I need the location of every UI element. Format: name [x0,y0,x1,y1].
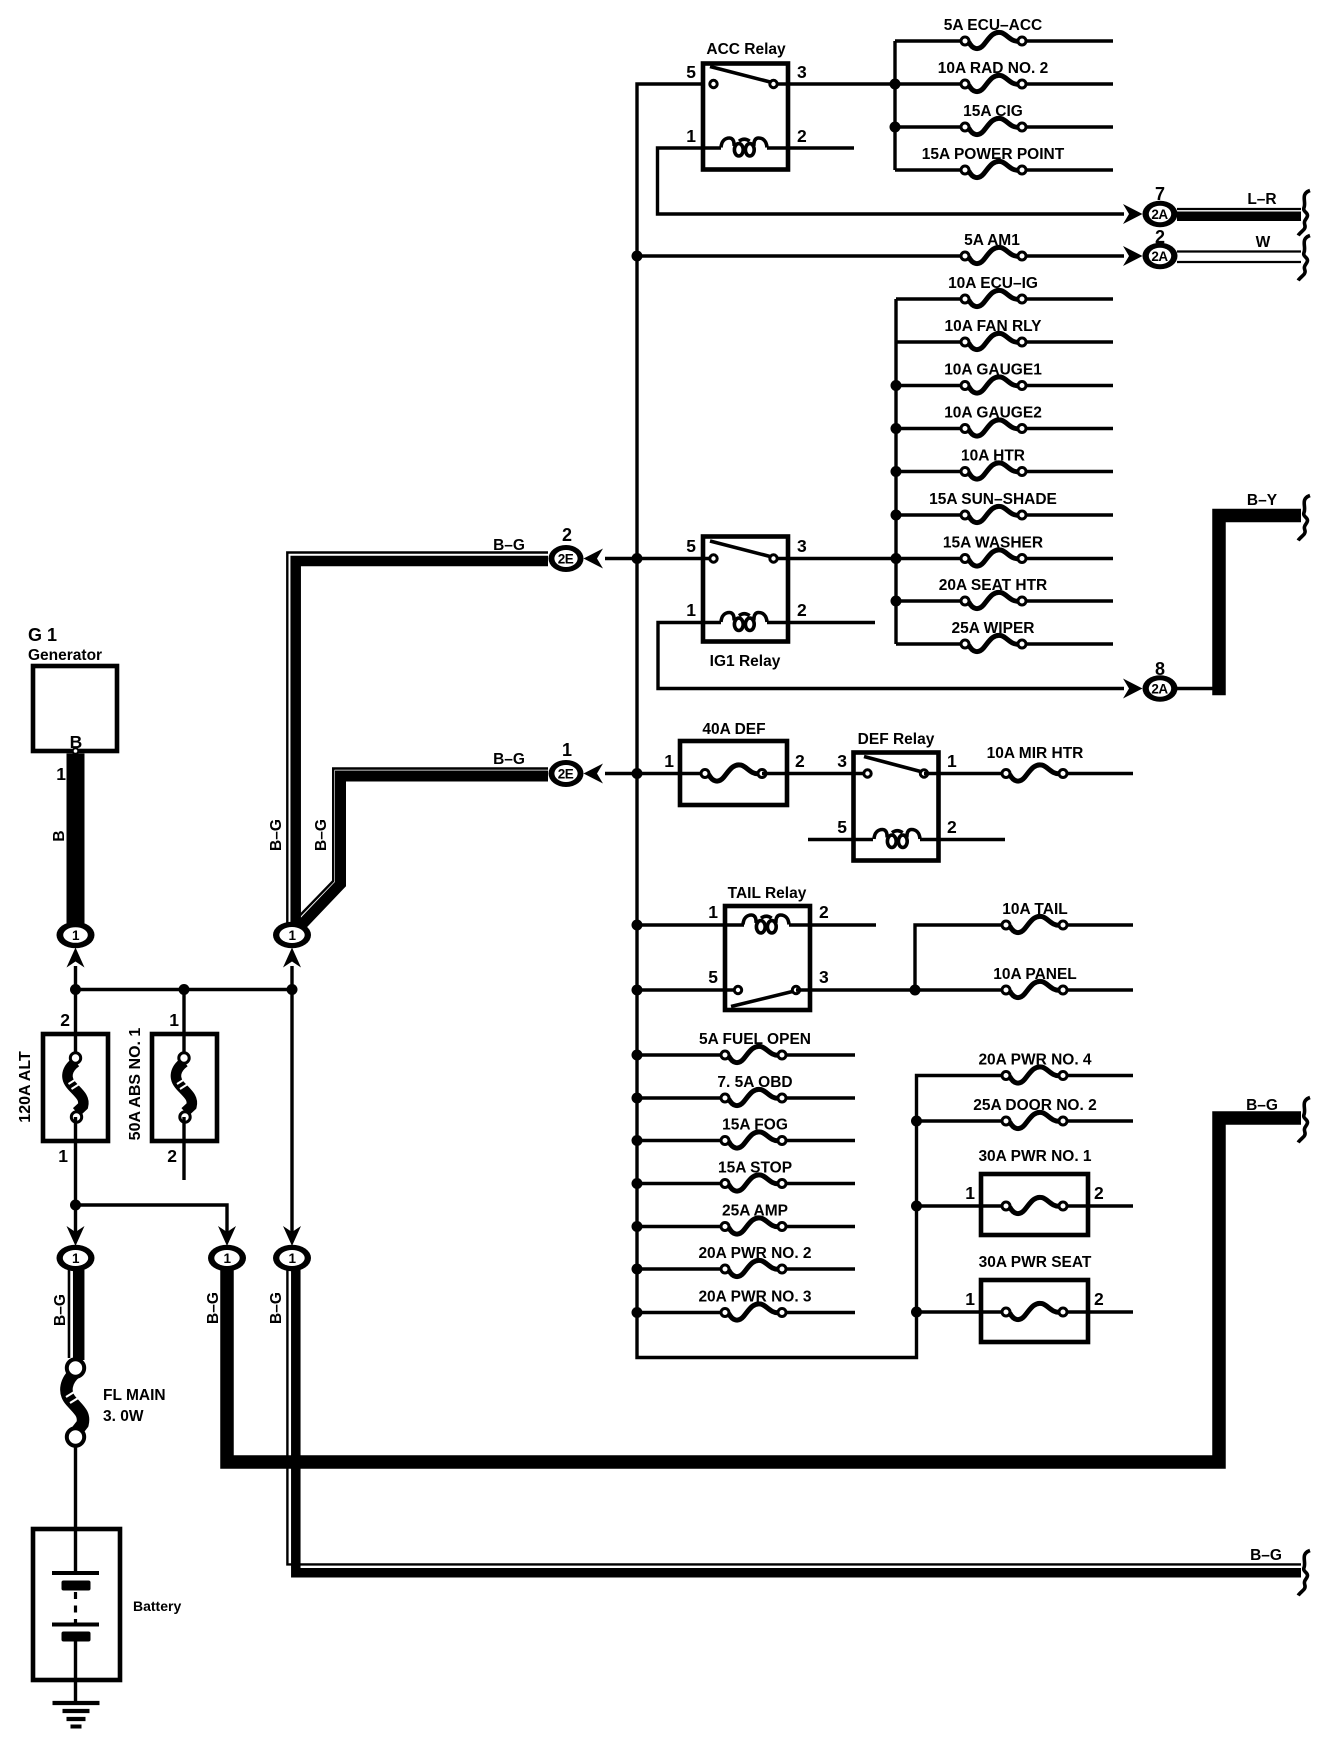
svg-text:B–G: B–G [1246,1097,1278,1114]
wire: main feed bus (left vertical) with bottom tie to right column [637,84,1006,1358]
wire B-G label (rotated, middle drop) [205,1292,222,1324]
wire: battery junction branch to middle lower connector [76,1205,228,1237]
wire: 2E pin2 to IG1 relay pin 5 [605,557,714,560]
fusible link 50A ABS NO. 1 pin 2 label [167,1146,177,1166]
fuse 20A SEAT HTR [896,592,1113,608]
relay ACC: box [703,64,788,170]
svg-text:2E: 2E [558,551,574,566]
fuse bank 1 bus [893,41,896,170]
relay IG1: box [703,537,788,642]
fuse 10A GAUGE2 [896,420,1113,436]
wire B-G (top right) end brace [1298,1098,1310,1143]
fuse 5A AM1 [637,247,1124,263]
fuse 25A DOOR NO. 2 [917,1112,1134,1128]
svg-text:3: 3 [797,536,807,556]
fusible link 30A PWR SEAT label [979,1254,1092,1271]
wire W (white, twin lines) [1177,252,1301,263]
fuse 25A WIPER [896,635,1113,651]
wire B (heavy, generator to connector 1) [67,754,85,924]
svg-text:2: 2 [562,525,572,545]
svg-text:2A: 2A [1151,207,1168,222]
30A PWR NO.1 pin 2 label [1094,1183,1104,1203]
relay ACC pin 1 label [686,126,696,146]
fuse 15A SUN-SHADE [896,506,1113,522]
wire: ABS branch drop [182,990,185,1035]
wire W label [1256,234,1271,251]
40A DEF pin 1 label [664,751,674,771]
connector 1 (middle) [273,922,311,949]
svg-text:3. 0W: 3. 0W [103,1408,144,1425]
junction dot bank1 row3 [890,122,901,133]
wire B-G from 2E pin1 label [493,751,525,768]
connector 2A pin 7 arrow [1123,204,1143,224]
wire: DEF relay pin 5 stub [808,838,873,841]
fuse 10A GAUGE1 [896,377,1113,393]
svg-text:1: 1 [58,1146,68,1166]
svg-text:L–R: L–R [1247,191,1276,208]
junction dot AM1 row [632,251,643,262]
svg-text:1: 1 [947,751,957,771]
junction dot right column at PWR SEAT row [911,1307,922,1318]
junction dot right column at PWR NO.1 row [911,1201,922,1212]
svg-text:B–G: B–G [268,819,285,851]
relay ACC pin 5 label [686,62,696,82]
rotated wire label B-G (2E pin2 drop) [268,819,285,851]
junction dot bus at TAIL switch row [632,985,643,996]
junction dot bus at FUEL OPEN row [632,1050,643,1061]
relay ACC pin 3 label [797,62,807,82]
relay IG1: label [710,653,781,670]
junction dot bank2 GAUGE1 [891,380,902,391]
junction dot bank2 SEAT HTR [891,596,902,607]
wire B-G (striped, lower right connector to bottom exit) [287,1269,1301,1573]
wire B label (rotated) [51,830,68,841]
wire: bus to TAIL relay pin 1 [637,923,744,926]
battery label [133,1598,181,1614]
svg-text:2: 2 [819,902,829,922]
fuse 15A STOP [637,1175,855,1191]
30A PWR NO.1 pin 1 label [965,1183,975,1203]
connector 2A pin 7 [1143,201,1178,228]
svg-text:1: 1 [288,1251,296,1266]
fuse 15A SUN-SHADE label [929,491,1057,508]
wire: bus to TAIL relay pin 5 [637,988,738,991]
fuse 25A AMP [637,1218,855,1234]
fusible link 30A PWR NO. 1 element [917,1197,1134,1213]
connector 2A pin 2 number [1155,227,1165,247]
ground symbol [53,1703,100,1727]
svg-text:1: 1 [72,1251,80,1266]
junction dot bus at FOG row [632,1135,643,1146]
wire B-G (bottom) end brace [1298,1551,1310,1596]
junction dot bus at DEF row [632,768,643,779]
svg-text:1: 1 [288,928,296,943]
fusible link FL MAIN element [66,1359,84,1445]
fuse 5A FUEL OPEN [637,1046,855,1062]
relay IG1 pin 2 label [797,600,807,620]
relay ACC: label [706,41,786,58]
wire B-Y label [1247,492,1278,509]
junction dot bus at AMP row [632,1221,643,1232]
connector 2A pin 8 number [1155,659,1165,679]
svg-text:1: 1 [686,126,696,146]
svg-text:ACC Relay: ACC Relay [706,41,786,58]
svg-text:3: 3 [837,751,847,771]
relay ACC switch [710,67,777,88]
svg-text:1: 1 [223,1251,231,1266]
junction dot bus at PWR NO.2 row [632,1264,643,1275]
junction dot bus at PWR NO.3 row [632,1307,643,1318]
relay ACC coil [721,138,854,156]
relay DEF switch [864,757,928,778]
svg-text:2E: 2E [558,766,574,781]
relay IG1 pin 3 label [797,536,807,556]
fuse 7.5A OBD [637,1089,855,1105]
fuse 10A MIR HTR label [987,745,1084,762]
wire: arrow to junction row [74,966,77,1034]
fuse 20A PWR NO. 2 label [698,1245,811,1262]
svg-text:5A AM1: 5A AM1 [964,232,1020,249]
fuse 10A MIR HTR [1002,765,1133,781]
connector 2A pin 2 arrow [1123,246,1143,266]
fusible link 120A ALT element [67,1034,83,1205]
svg-text:120A ALT: 120A ALT [17,1051,34,1123]
fusible link 120A ALT pin 1 label [58,1146,68,1166]
connector 2E pin 2 number [562,525,572,545]
relay DEF pin 5 label [837,817,847,837]
svg-text:5: 5 [686,536,696,556]
svg-text:2: 2 [167,1146,177,1166]
relay TAIL: box [725,906,810,1010]
relay IG1 pin 5 label [686,536,696,556]
fuse 25A WIPER label [952,620,1035,637]
fuse 15A POWER POINT label [922,146,1065,163]
generator G1 box [33,666,117,751]
wire L-R (striped heavy) [1177,209,1301,216]
wire: middle drop to lower connector [290,990,293,1238]
wire B-G (top right) label [1246,1097,1278,1114]
svg-text:2: 2 [947,817,957,837]
svg-text:5: 5 [837,817,847,837]
fuse 10A RAD NO. 2 label [938,60,1049,77]
connector 1 (generator side) arrow [67,948,85,968]
junction dot left [70,984,81,995]
junction dot tail bus at PANEL row [910,985,921,996]
svg-text:B–G: B–G [268,1292,285,1324]
fusible link 40A DEF box [680,741,787,805]
relay IG1 pin 1 label [686,600,696,620]
svg-text:B–G: B–G [493,751,525,768]
fuse 10A TAIL label [1002,901,1067,918]
connector 2A pin 2 [1143,243,1178,270]
wire: IG1 relay pin1 L-bend to connector 2A pin8 [658,623,1124,689]
svg-text:G 1: G 1 [28,625,57,645]
wire: FL MAIN to battery [74,1446,77,1573]
wire: ACC relay pin3 to fuse bus [774,82,896,85]
junction dot battery feed [70,1200,81,1211]
fuse 15A STOP label [718,1160,792,1177]
relay IG1 coil [721,613,875,631]
generator G1 designator [28,625,57,645]
fuse 25A AMP label [722,1203,788,1220]
wire B-G label (rotated, battery drop) [52,1294,69,1326]
svg-text:B: B [51,830,68,841]
fusible link 40A DEF label [702,721,765,738]
fuse 15A POWER POINT [895,161,1113,177]
wire: ACC relay pin1 L-bend [658,148,1125,214]
fuse 10A PANEL [915,981,1133,997]
wire B-G from 2E pin1 (heavy, down-diagonal to connector 1) [295,769,549,926]
relay DEF: label [858,731,935,748]
relay DEF pin 1 label [947,751,957,771]
wire B-Y (heavy riser and out) [1219,516,1301,696]
fusible link 30A PWR SEAT element [917,1303,1134,1319]
generator G1 terminal B pin circle [73,748,79,754]
svg-text:2A: 2A [1151,249,1168,264]
fuse 20A PWR NO. 3 label [698,1289,811,1306]
wire: middle arrow to junction row [290,966,293,990]
svg-text:B–G: B–G [313,819,330,851]
relay DEF pin 3 label [837,751,847,771]
battery box [33,1529,120,1680]
svg-text:2: 2 [795,751,805,771]
battery cell plates [52,1573,99,1642]
fuse 20A PWR NO. 4 label [978,1052,1091,1069]
fusible link 30A PWR SEAT box [981,1280,1088,1342]
junction dot bus at STOP row [632,1178,643,1189]
connector 1 (generator side) [57,922,95,949]
connector 1 (lower left) arrow [67,1226,85,1246]
svg-text:TAIL Relay: TAIL Relay [728,885,807,902]
fuse 15A WASHER label [943,535,1043,552]
connector 1 (lower left) [57,1245,95,1272]
junction dot bank2 WASHER [891,553,902,564]
connector 2E pin 2 [549,545,584,572]
wire B-G (bottom) label [1250,1547,1282,1564]
fuse 10A ECU-IG label [948,275,1038,292]
junction dot bank2 SUN-SHADE [891,510,902,521]
relay IG1 switch [710,541,777,562]
fusible link 120A ALT label (rotated) [17,1051,34,1123]
relay TAIL switch (inverted blade) [731,986,800,1006]
fusible link 40A DEF element [701,765,766,781]
junction dot bank1 row2 [890,79,901,90]
fuse 10A GAUGE2 label [944,405,1042,422]
svg-text:40A DEF: 40A DEF [702,721,765,738]
junction dot center [179,984,190,995]
fusible link 30A PWR NO. 1 box [981,1174,1088,1235]
fuse 7.5A OBD label [717,1074,792,1091]
fuse 15A CIG label [963,103,1023,120]
svg-text:5: 5 [708,967,718,987]
svg-text:1: 1 [664,751,674,771]
40A DEF pin 2 label [795,751,805,771]
fuse 20A PWR NO. 3 [637,1304,855,1320]
svg-text:B–Y: B–Y [1247,492,1278,509]
connector 2A pin 8 [1143,675,1178,702]
rotated wire label B-G (2E pin1 drop) [313,819,330,851]
svg-text:1: 1 [169,1010,179,1030]
svg-text:1: 1 [56,764,66,784]
svg-text:B–G: B–G [1250,1547,1282,1564]
wire B-G (heavy, lower middle connector to right riser and top-right exit) [227,1118,1301,1462]
fusible link FL MAIN rating label [103,1408,144,1425]
junction dot bus at IG1 row [632,553,643,564]
fuse 10A HTR label [961,448,1025,465]
connector 1 (lower middle) arrow [218,1226,236,1246]
fuse 25A DOOR NO. 2 label [973,1097,1096,1114]
svg-text:B–G: B–G [52,1294,69,1326]
wire B-G from 2E pin2 label [493,537,525,554]
relay DEF: box [854,753,939,861]
svg-text:2A: 2A [1151,681,1168,696]
connector 2E pin 1 number [562,740,572,760]
relay TAIL pin 3 label [819,967,829,987]
fuse 20A PWR NO. 2 [637,1260,855,1276]
svg-text:B–G: B–G [205,1292,222,1324]
fuse 10A PANEL label [993,966,1077,983]
fuse 5A AM1 label [964,232,1020,249]
fusible link 30A PWR NO. 1 label [978,1148,1091,1165]
fuse 15A CIG [895,118,1113,134]
svg-text:30A PWR SEAT: 30A PWR SEAT [979,1254,1092,1271]
fuse 5A ECU-ACC [895,32,1113,48]
fuse 10A GAUGE1 label [944,362,1042,379]
relay DEF pin 2 label [947,817,957,837]
svg-text:1: 1 [562,740,572,760]
svg-text:2: 2 [1094,1289,1104,1309]
wire W end brace [1298,236,1310,281]
wire: 2E pin1 to 40A DEF [605,772,705,775]
fuse 5A FUEL OPEN label [699,1031,811,1048]
junction dot bank2 HTR [891,466,902,477]
fuse 15A WASHER [774,550,1114,566]
generator G1 name label [28,647,102,664]
fusible link 50A ABS NO. 1 label (rotated) [127,1028,144,1141]
relay TAIL: label [728,885,807,902]
30A PWR SEAT pin 2 label [1094,1289,1104,1309]
svg-text:3: 3 [819,967,829,987]
fuse 10A RAD NO. 2 [895,75,1113,91]
wire: ALT to battery junction [74,1205,77,1237]
wire L-R end brace [1298,191,1310,236]
svg-text:DEF Relay: DEF Relay [858,731,935,748]
fuse 10A TAIL [1002,916,1133,932]
generator pin 1 label [56,764,66,784]
svg-text:1: 1 [965,1289,975,1309]
svg-text:Battery: Battery [133,1598,181,1614]
svg-text:1: 1 [708,902,718,922]
relay ACC pin 2 label [797,126,807,146]
svg-text:2: 2 [797,126,807,146]
fusible link 120A ALT pin 2 label [60,1010,70,1030]
junction dot right column at DOOR row [911,1116,922,1127]
fuse 20A SEAT HTR label [939,577,1048,594]
connector 2E pin 1 arrow [584,764,604,784]
30A PWR SEAT pin 1 label [965,1289,975,1309]
fuse 15A FOG label [722,1117,788,1134]
wire B-G label (rotated, right drop) [268,1292,285,1324]
connector 2A pin 8 arrow [1123,679,1143,699]
svg-text:2: 2 [60,1010,70,1030]
fusible link 50A ABS NO. 1 element [176,1034,192,1180]
connector 1 (lower right) [273,1245,311,1272]
junction dot bus at OBD row [632,1093,643,1104]
svg-text:30A PWR NO. 1: 30A PWR NO. 1 [978,1148,1091,1165]
fusible link FL MAIN label [103,1387,166,1404]
wire: TAIL relay pin 3 to tail bus [796,988,915,991]
wire B-G (striped, connector to FL MAIN) [69,1269,79,1360]
relay DEF coil [874,830,1005,848]
fuse bank 2 bus [894,299,897,644]
fuse 20A PWR NO. 4 [1002,1067,1133,1083]
wire: battery negative to ground [74,1641,77,1703]
connector 1 (middle) arrow [283,948,301,968]
wire: DEF relay pin 1 to 10A MIR HTR [924,772,1006,775]
svg-text:10A MIR HTR: 10A MIR HTR [987,745,1084,762]
fuse 10A FAN RLY [896,333,1113,349]
junction dot bus at TAIL coil row [632,920,643,931]
fuse 10A FAN RLY label [944,318,1042,335]
svg-text:FL MAIN: FL MAIN [103,1387,166,1404]
svg-text:50A ABS NO. 1: 50A ABS NO. 1 [127,1028,144,1141]
svg-text:1: 1 [965,1183,975,1203]
fusible link 120A ALT box [43,1034,108,1141]
junction dot right [287,984,298,995]
connector 2E pin 1 [549,760,584,787]
fuse 10A ECU-IG [896,290,1113,306]
svg-text:1: 1 [686,600,696,620]
connector 2E pin 2 arrow [584,549,604,569]
fuse 10A HTR [896,463,1113,479]
svg-text:Generator: Generator [28,647,102,664]
svg-text:W: W [1256,234,1271,251]
svg-text:2: 2 [1094,1183,1104,1203]
relay TAIL pin 5 label [708,967,718,987]
fusible link 50A ABS NO. 1 pin 1 label [169,1010,179,1030]
wire: junction row horizontal [76,988,293,991]
relay TAIL pin 2 label [819,902,829,922]
wire: tail bus riser [915,925,1006,990]
wire B-Y end brace [1298,496,1310,541]
junction dot bank2 GAUGE2 [891,423,902,434]
generator G1 terminal B label [70,732,83,752]
wire L-R label [1247,191,1276,208]
svg-text:IG1 Relay: IG1 Relay [710,653,781,670]
svg-text:5: 5 [686,62,696,82]
relay TAIL pin 1 label [708,902,718,922]
wire: 40A DEF to DEF relay pin 3 [762,772,868,775]
connector 1 (lower right) arrow [283,1226,301,1246]
connector 2A pin 7 number [1155,184,1165,204]
fuse 15A FOG [637,1132,855,1148]
svg-text:1: 1 [72,928,80,943]
connector 1 (lower middle) [208,1245,246,1272]
fuse 5A ECU-ACC label [944,17,1042,34]
relay TAIL coil [743,915,876,933]
wire B-G from 2E pin2 (striped heavy, down to connector 1) [287,553,548,925]
fusible link 50A ABS NO. 1 box [152,1034,217,1141]
svg-text:2: 2 [797,600,807,620]
svg-text:3: 3 [797,62,807,82]
wire: connector 2A pin8 to B-Y riser [1177,687,1219,690]
